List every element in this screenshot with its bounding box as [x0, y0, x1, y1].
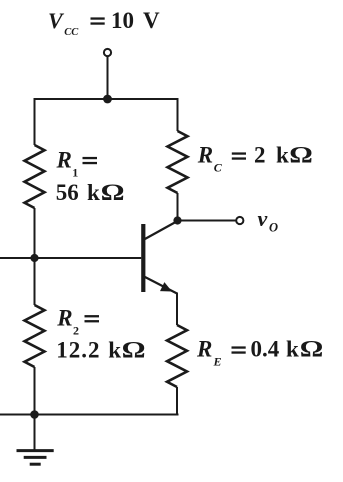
svg-text:Ω: Ω — [300, 336, 324, 362]
svg-text:k: k — [276, 143, 289, 168]
svg-text:Ω: Ω — [122, 337, 146, 363]
svg-text:V: V — [48, 8, 65, 33]
svg-text:56: 56 — [56, 180, 79, 205]
svg-text:O: O — [269, 220, 278, 234]
svg-text:V: V — [143, 8, 160, 33]
svg-text:R: R — [196, 337, 212, 362]
svg-text:Ω: Ω — [289, 142, 313, 168]
svg-text:Ω: Ω — [101, 179, 125, 205]
svg-text:C: C — [214, 161, 223, 175]
svg-text:CC: CC — [64, 27, 79, 38]
svg-text:0.4: 0.4 — [251, 337, 280, 362]
svg-text:E: E — [213, 355, 222, 369]
svg-text:v: v — [258, 206, 268, 231]
svg-text:2: 2 — [254, 143, 266, 168]
svg-text:1: 1 — [72, 166, 78, 180]
svg-text:R: R — [56, 148, 72, 173]
svg-text:k: k — [87, 180, 100, 205]
svg-text:k: k — [108, 338, 121, 363]
svg-text:12.2: 12.2 — [56, 338, 100, 363]
svg-text:10: 10 — [111, 8, 134, 33]
svg-text:2: 2 — [73, 323, 79, 337]
svg-text:k: k — [286, 337, 299, 362]
svg-text:R: R — [197, 143, 213, 168]
svg-text:R: R — [56, 305, 72, 330]
